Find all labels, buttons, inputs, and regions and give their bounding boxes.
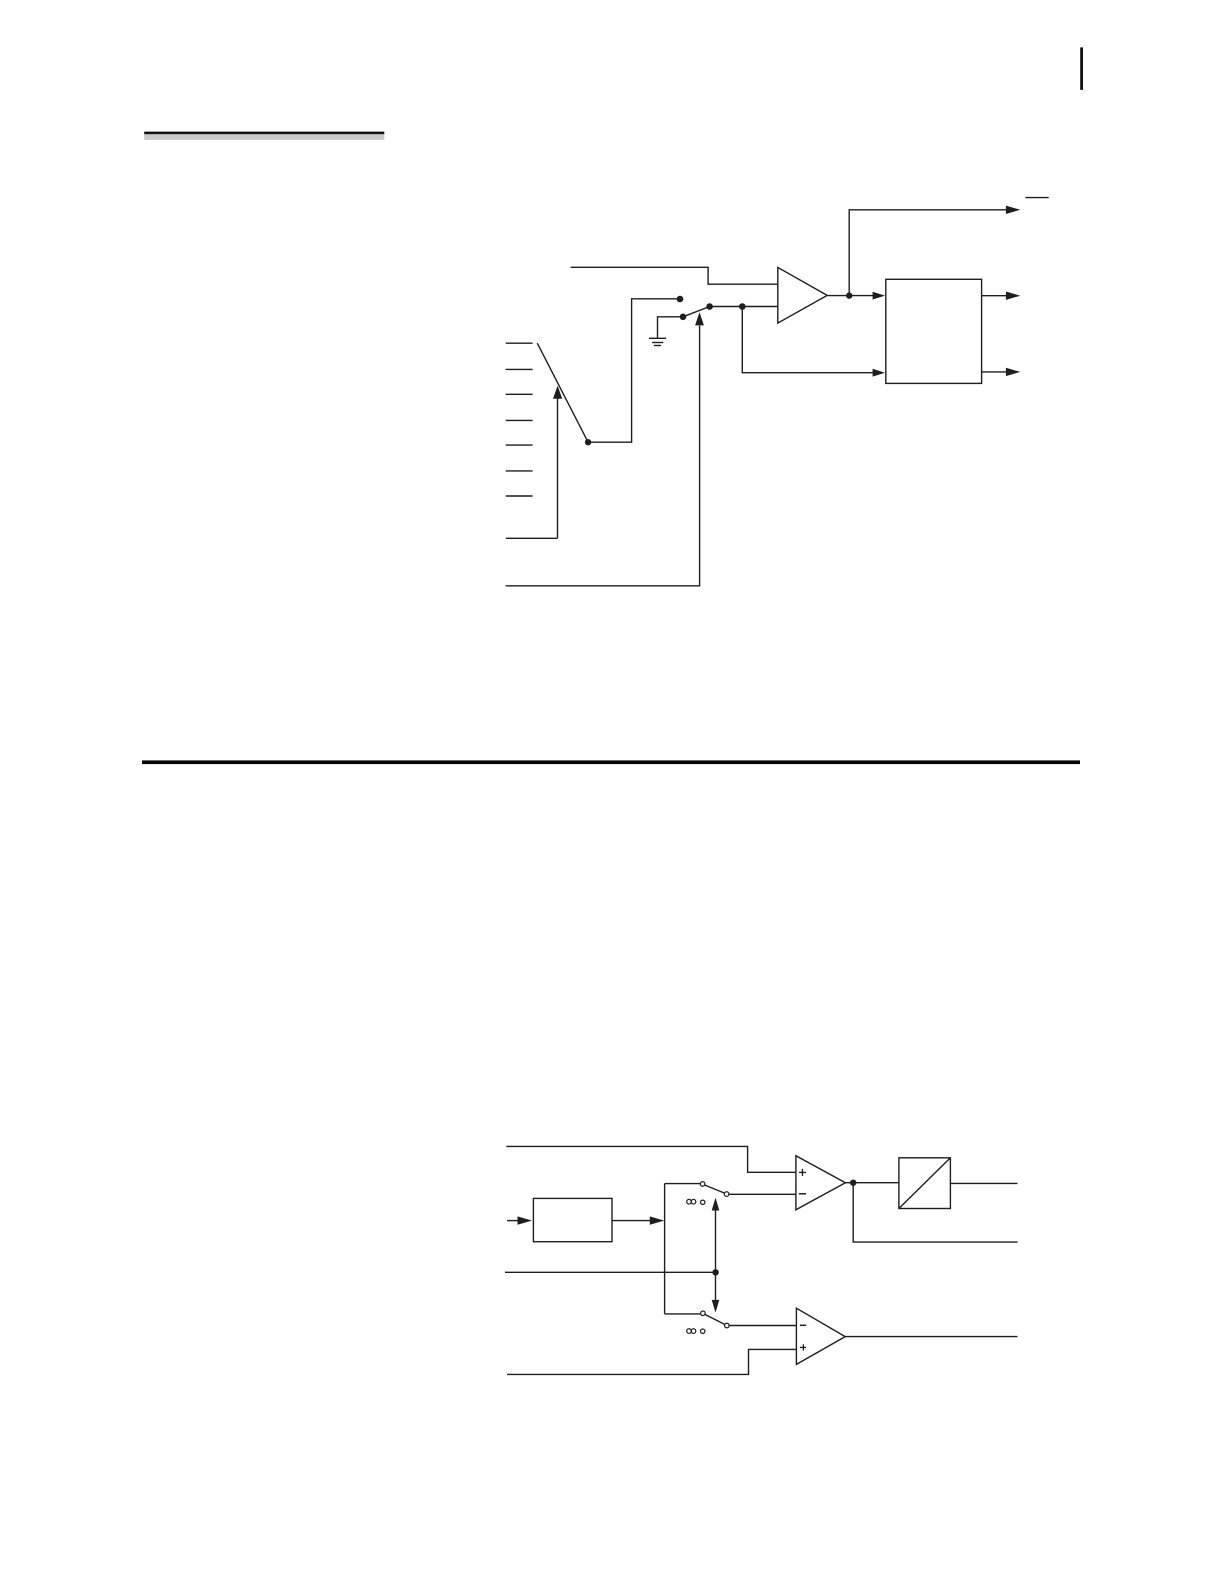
wire C1 output to ADC block <box>845 1182 899 1184</box>
op-amp comparator C1 <box>796 1156 846 1210</box>
page header bar <box>1080 47 1083 90</box>
wire C2 output <box>845 1336 1017 1338</box>
node: switch common <box>706 303 713 310</box>
switch S1 blade <box>683 307 710 317</box>
comparator C2 plus label <box>800 1344 806 1350</box>
overbar label mark <box>1025 197 1048 199</box>
section divider rule <box>142 760 1080 764</box>
node: select junction <box>712 1269 718 1275</box>
switch SW1 blade <box>705 1185 725 1193</box>
wire C1 output lower branch <box>853 1183 1017 1242</box>
comparator C1 plus label <box>799 1169 806 1176</box>
wire block B1 output 2 <box>982 368 1021 376</box>
wire switch common to buffer <box>710 306 778 308</box>
comparator C1 minus label <box>799 1193 806 1195</box>
tap select arrow <box>553 386 562 539</box>
wire comparator C2 plus-input step <box>507 1349 796 1374</box>
wire comparator C1 plus-input step <box>506 1146 796 1172</box>
section heading underline <box>144 132 384 135</box>
switch SW1 pole <box>724 1192 729 1197</box>
ladder wiper <box>537 343 588 442</box>
ground <box>649 338 666 345</box>
comparator C2 minus label <box>800 1324 806 1326</box>
wire SW2 to comparator C2 minus-input <box>729 1325 796 1327</box>
wire junction to block B1 lower input <box>742 307 885 377</box>
wire block B1 output 1 <box>982 292 1021 300</box>
ladder bottom tap <box>506 537 558 539</box>
node: comparator C1 output <box>850 1180 856 1186</box>
node: buffer input junction <box>739 303 746 310</box>
switch SW1 contact <box>700 1182 705 1187</box>
wire buffer top input step <box>571 267 778 284</box>
wire bus to switch SW1 <box>665 1183 701 1185</box>
node: buffer output junction <box>846 292 852 298</box>
block B1 <box>886 279 982 383</box>
wire block B2 input <box>507 1216 532 1224</box>
wire mux bus <box>664 1184 666 1314</box>
wire select input <box>505 1271 716 1273</box>
wire buffer output to top-right arrow <box>849 206 1020 296</box>
node: switch throw A <box>677 296 684 303</box>
op-amp comparator C2 <box>796 1308 845 1364</box>
block B2 <box>533 1198 612 1241</box>
wire buffer output to block B1 <box>827 292 885 300</box>
wire ADC output <box>950 1182 1017 1184</box>
switch SW2 blade <box>705 1314 725 1324</box>
switch SW2 contact <box>701 1311 706 1316</box>
node: wiper tap <box>585 439 591 445</box>
op-amp buffer U1 <box>778 267 827 323</box>
wire block B2 output to bus <box>612 1216 664 1224</box>
node: switch throw B <box>680 314 687 321</box>
switch SW2 pole <box>725 1323 730 1328</box>
block ADC <box>899 1158 951 1209</box>
mux select arrow <box>712 1198 720 1313</box>
switch SW2 state circles <box>687 1329 705 1334</box>
wire ground branch <box>658 317 684 338</box>
resistor ladder taps <box>506 343 533 496</box>
switch SW1 state circles <box>687 1199 705 1204</box>
switch control line <box>506 312 704 586</box>
wire wiper to switch throw A <box>588 299 680 442</box>
wire SW1 to comparator C1 minus-input <box>729 1193 796 1195</box>
wire bus to switch SW2 <box>665 1313 701 1315</box>
section heading underline shadow <box>144 134 384 140</box>
